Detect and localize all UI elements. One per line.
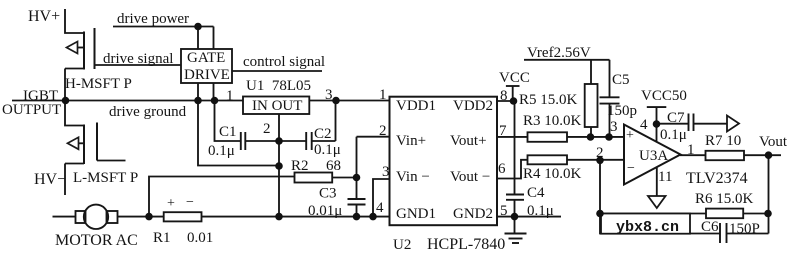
svg-text:MOTOR AC: MOTOR AC (55, 232, 138, 249)
svg-text:Vin −: Vin − (396, 169, 430, 185)
svg-text:0.01: 0.01 (187, 230, 213, 246)
svg-text:IN OUT: IN OUT (252, 98, 302, 114)
svg-text:2: 2 (379, 123, 387, 139)
svg-text:R4 10.0K: R4 10.0K (523, 166, 582, 182)
svg-text:R1: R1 (153, 230, 171, 246)
svg-text:U1 78L05: U1 78L05 (246, 78, 311, 94)
svg-text:GATE: GATE (187, 50, 225, 66)
svg-text:C3: C3 (319, 186, 337, 202)
svg-text:0.1μ: 0.1μ (314, 142, 341, 158)
svg-text:−: − (186, 195, 194, 210)
svg-text:Vref2.56V: Vref2.56V (527, 45, 591, 61)
svg-text:1: 1 (226, 88, 234, 104)
svg-text:R7 10: R7 10 (705, 133, 741, 149)
svg-text:Vout −: Vout − (450, 169, 490, 185)
svg-text:+: + (167, 196, 175, 211)
svg-text:control signal: control signal (243, 54, 325, 70)
svg-text:DRIVE: DRIVE (184, 67, 230, 83)
svg-text:−: − (627, 161, 635, 176)
svg-text:VCC: VCC (499, 70, 530, 86)
svg-text:VDD1: VDD1 (396, 98, 436, 114)
svg-text:3: 3 (610, 119, 618, 135)
svg-text:R6 15.0K: R6 15.0K (695, 191, 754, 207)
svg-text:ybx8.cn: ybx8.cn (616, 219, 679, 236)
svg-text:8: 8 (500, 88, 508, 104)
svg-text:4: 4 (640, 117, 648, 133)
svg-text:C1: C1 (219, 124, 237, 140)
svg-text:H-MSFT P: H-MSFT P (65, 76, 132, 92)
svg-text:R3 10.0K: R3 10.0K (523, 113, 582, 129)
svg-text:3: 3 (382, 164, 390, 180)
svg-text:Vout+: Vout+ (450, 133, 487, 149)
svg-text:R2: R2 (291, 158, 309, 174)
svg-text:C7: C7 (667, 110, 685, 126)
svg-text:5: 5 (500, 203, 508, 219)
svg-text:U3A: U3A (639, 148, 668, 164)
svg-text:2: 2 (596, 145, 604, 161)
svg-text:4: 4 (376, 200, 384, 216)
svg-text:3: 3 (325, 87, 333, 103)
svg-text:drive ground: drive ground (109, 104, 187, 120)
svg-text:Vout: Vout (759, 134, 788, 150)
svg-text:drive signal: drive signal (103, 51, 173, 67)
svg-text:1: 1 (379, 87, 387, 103)
svg-text:1: 1 (687, 142, 695, 158)
svg-text:7: 7 (499, 123, 507, 139)
svg-text:0.1μ: 0.1μ (660, 127, 687, 143)
svg-text:OUTPUT: OUTPUT (2, 102, 61, 118)
svg-text:GND1: GND1 (396, 206, 436, 222)
svg-text:L-MSFT P: L-MSFT P (73, 170, 138, 186)
svg-text:drive power: drive power (117, 11, 189, 27)
svg-text:+: + (626, 128, 634, 143)
svg-text:0.01μ: 0.01μ (308, 203, 342, 219)
svg-text:68: 68 (326, 158, 341, 174)
svg-text:0.1μ: 0.1μ (208, 143, 235, 159)
svg-text:VCC50: VCC50 (641, 88, 687, 104)
svg-text:HV+: HV+ (28, 8, 60, 25)
svg-text:2: 2 (263, 121, 271, 137)
svg-text:150P: 150P (729, 221, 760, 237)
svg-text:U2: U2 (393, 237, 411, 253)
svg-text:GND2: GND2 (453, 206, 493, 222)
svg-text:C5: C5 (612, 72, 630, 88)
svg-text:Vin+: Vin+ (396, 133, 426, 149)
svg-text:0.1μ: 0.1μ (527, 203, 554, 219)
svg-text:HV−: HV− (34, 171, 66, 188)
svg-text:11: 11 (658, 169, 672, 185)
svg-text:R5 15.0K: R5 15.0K (519, 92, 578, 108)
svg-text:C2: C2 (314, 126, 332, 142)
svg-text:150p: 150p (607, 103, 637, 119)
svg-text:6: 6 (498, 161, 506, 177)
svg-text:C6: C6 (701, 219, 719, 235)
svg-text:TLV2374: TLV2374 (686, 170, 748, 187)
svg-text:HCPL-7840: HCPL-7840 (427, 236, 505, 253)
svg-text:C4: C4 (527, 185, 545, 201)
svg-text:VDD2: VDD2 (453, 98, 493, 114)
